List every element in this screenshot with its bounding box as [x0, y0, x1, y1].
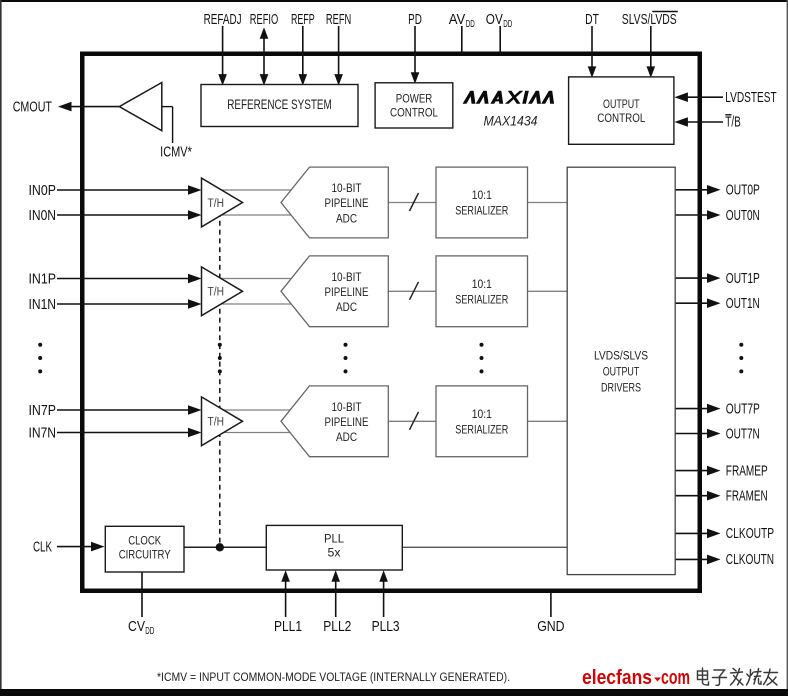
svg-text:T/H: T/H	[208, 285, 225, 299]
svg-text:IN1P: IN1P	[29, 270, 57, 287]
svg-text:PIPELINE: PIPELINE	[325, 196, 369, 210]
svg-text:PLL1: PLL1	[274, 618, 302, 635]
svg-text:CMOUT: CMOUT	[13, 98, 52, 115]
svg-text:5x: 5x	[328, 545, 341, 559]
svg-text:LVDSTEST: LVDSTEST	[725, 89, 776, 106]
svg-text:IN7P: IN7P	[29, 402, 57, 419]
svg-text:IN0P: IN0P	[29, 182, 57, 199]
svg-text:CLOCK: CLOCK	[128, 534, 161, 548]
svg-text:CLKOUTP: CLKOUTP	[726, 525, 774, 542]
svg-text:10-BIT: 10-BIT	[332, 400, 362, 414]
svg-text:10-BIT: 10-BIT	[332, 181, 362, 195]
svg-text:ADC: ADC	[336, 300, 357, 314]
svg-text:DD: DD	[503, 18, 512, 30]
svg-text:DD: DD	[145, 625, 154, 637]
svg-text:FRAMEP: FRAMEP	[726, 462, 768, 479]
svg-text:OUTPUT: OUTPUT	[603, 364, 640, 378]
svg-text:ICMV*: ICMV*	[160, 143, 192, 160]
svg-text:10-BIT: 10-BIT	[332, 270, 362, 284]
svg-text:DT: DT	[585, 11, 599, 28]
svg-text:OUT1P: OUT1P	[726, 270, 760, 287]
svg-text:SERIALIZER: SERIALIZER	[455, 293, 508, 307]
svg-text:GND: GND	[537, 618, 565, 635]
svg-text:*ICMV = INPUT COMMON-MODE VOLT: *ICMV = INPUT COMMON-MODE VOLTAGE (INTER…	[157, 670, 510, 684]
svg-text:REFP: REFP	[291, 11, 315, 28]
svg-text:OUT1N: OUT1N	[726, 295, 760, 312]
svg-text:10:1: 10:1	[472, 188, 492, 202]
svg-text:OUT0P: OUT0P	[726, 182, 760, 199]
svg-text:CV: CV	[128, 618, 145, 635]
svg-text:POWER: POWER	[396, 92, 433, 106]
svg-text:CIRCUITRY: CIRCUITRY	[119, 548, 171, 562]
svg-text:ADC: ADC	[336, 430, 357, 444]
svg-text:LVDS/SLVS: LVDS/SLVS	[594, 348, 648, 362]
svg-text:PIPELINE: PIPELINE	[325, 415, 369, 429]
svg-text:T/H: T/H	[208, 196, 225, 210]
svg-text:MAX1434: MAX1434	[484, 113, 538, 129]
svg-text:PLL2: PLL2	[323, 618, 351, 635]
svg-text:REFERENCE SYSTEM: REFERENCE SYSTEM	[227, 97, 332, 112]
svg-text:ADC: ADC	[336, 211, 357, 225]
svg-text:CONTROL: CONTROL	[390, 106, 438, 120]
svg-text:T/H: T/H	[208, 415, 225, 429]
svg-text:DRIVERS: DRIVERS	[601, 380, 641, 394]
svg-text:10:1: 10:1	[472, 277, 492, 291]
svg-text:10:1: 10:1	[472, 407, 492, 421]
svg-text:com: com	[661, 667, 690, 689]
svg-text:OUT7N: OUT7N	[726, 425, 760, 442]
svg-text:OV: OV	[486, 11, 503, 28]
svg-text:AV: AV	[449, 11, 466, 28]
svg-text:OUT7P: OUT7P	[726, 400, 760, 417]
svg-text:CONTROL: CONTROL	[597, 111, 645, 125]
svg-text:SERIALIZER: SERIALIZER	[455, 423, 508, 437]
svg-text:PLL3: PLL3	[372, 618, 400, 635]
svg-text:OUTPUT: OUTPUT	[603, 97, 640, 111]
svg-text:DD: DD	[466, 18, 475, 30]
svg-text:REFIO: REFIO	[250, 11, 278, 28]
svg-text:REFN: REFN	[326, 11, 351, 28]
svg-text:elecfans: elecfans	[582, 667, 652, 689]
svg-text:PLL: PLL	[324, 531, 344, 545]
svg-text:CLK: CLK	[33, 538, 52, 555]
svg-text:SERIALIZER: SERIALIZER	[455, 204, 508, 218]
svg-text:IN0N: IN0N	[29, 207, 57, 224]
svg-text:PD: PD	[408, 11, 422, 28]
svg-text:T/B: T/B	[725, 114, 741, 131]
svg-text:SLVS/LVDS: SLVS/LVDS	[622, 11, 677, 28]
svg-text:IN7N: IN7N	[29, 424, 57, 441]
svg-text:REFADJ: REFADJ	[204, 11, 242, 28]
svg-text:FRAMEN: FRAMEN	[726, 488, 768, 505]
svg-text:OUT0N: OUT0N	[726, 207, 760, 224]
svg-text:PIPELINE: PIPELINE	[325, 285, 369, 299]
svg-text:IN1N: IN1N	[29, 296, 57, 313]
svg-text:CLKOUTN: CLKOUTN	[726, 551, 774, 568]
